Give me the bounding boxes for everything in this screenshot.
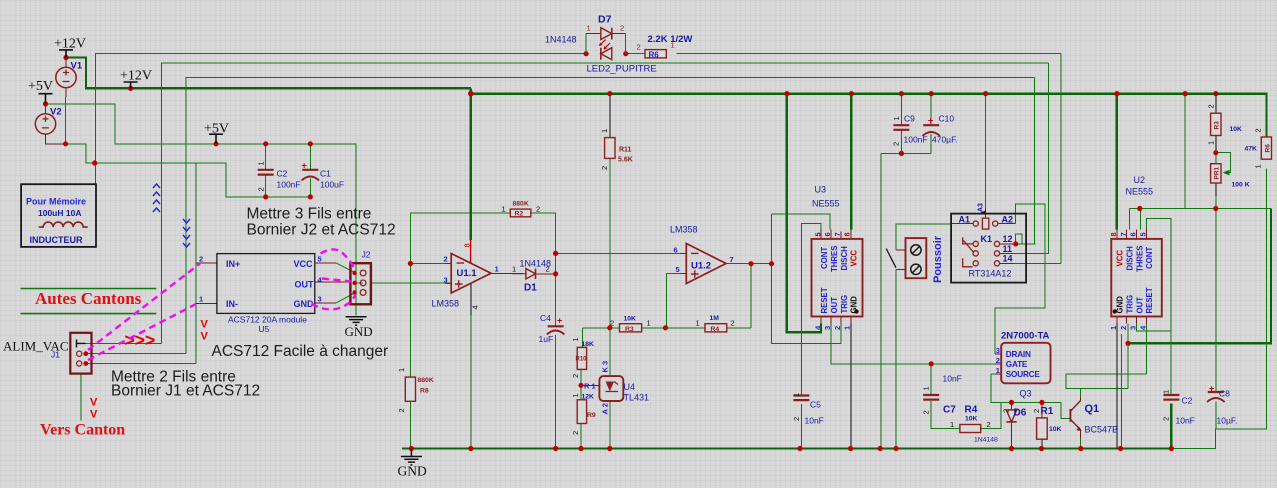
svg-text:2: 2: [1207, 104, 1216, 108]
svg-text:NE555: NE555: [1126, 187, 1154, 197]
K 3 / A 2 / R 1 TL431 rotated labels: [584, 361, 610, 415]
svg-text:OUT: OUT: [830, 297, 839, 314]
svg-text:+12V: +12V: [54, 37, 86, 52]
capacitor C9: [893, 125, 939, 130]
magenta dashed jumper J1 to IN-: [88, 304, 196, 360]
wire U3 OUT to MOSFET gate: [831, 324, 995, 364]
wire C2b feed: [1170, 331, 1172, 395]
svg-text:47K: 47K: [1245, 146, 1258, 153]
svg-text:+5V: +5V: [28, 79, 53, 94]
svg-text:5.6K: 5.6K: [618, 157, 633, 164]
svg-text:1: 1: [502, 205, 506, 214]
wire Q1 collector: [1080, 397, 1082, 400]
wire +5V net from V2 plus: [46, 104, 357, 263]
capacitor C2: [258, 170, 319, 175]
wire C2 pins: [265, 144, 267, 197]
wire U5 GND stub: [315, 302, 336, 304]
svg-text:U1.1: U1.1: [457, 268, 478, 279]
svg-text:U4: U4: [624, 382, 636, 392]
svg-text:A1: A1: [959, 215, 971, 225]
wire PR1 bottom to DISCH net: [1215, 183, 1217, 196]
wire relay A2 out: [998, 223, 1015, 225]
capacitor C2b: [1163, 395, 1179, 400]
svg-text:+: +: [302, 161, 307, 171]
svg-text:C8: C8: [1219, 389, 1230, 399]
U2 rotated pin names: [1126, 246, 1155, 314]
svg-text:+5V: +5V: [204, 122, 229, 137]
resistor R9: [577, 400, 586, 424]
svg-text:R3: R3: [625, 326, 634, 333]
svg-text:Q3: Q3: [1020, 389, 1032, 399]
diode D7: [586, 34, 626, 54]
svg-text:D7: D7: [598, 14, 612, 26]
svg-text:2: 2: [731, 318, 735, 327]
svg-text:2: 2: [1162, 417, 1171, 421]
svg-text:A 2: A 2: [601, 403, 610, 414]
wire rail drop x=1185: [1184, 94, 1186, 209]
svg-text:100nF: 100nF: [277, 180, 301, 190]
blue ic pin texts: [226, 259, 1040, 379]
V1 plus minus: [63, 70, 70, 82]
svg-text:R8: R8: [420, 388, 429, 395]
resistor R11: [605, 138, 615, 159]
svg-text:10µF.: 10µF.: [1217, 416, 1238, 426]
svg-text:18K: 18K: [582, 341, 595, 348]
U3 pin1 dot: [854, 309, 858, 313]
svg-text:2N7000-TA: 2N7000-TA: [1001, 331, 1050, 342]
gnd symbol J2: [346, 317, 367, 325]
svg-text:11: 11: [1003, 244, 1013, 254]
svg-text:SOURCE: SOURCE: [1006, 370, 1041, 379]
svg-text:V1: V1: [71, 61, 83, 72]
wire poussoir bottom to rail: [896, 268, 906, 270]
wire TL431 ref to node: [581, 384, 601, 386]
wire U1.1 pin4 down: [470, 284, 472, 316]
wire R1 pins: [1041, 402, 1043, 418]
wire relay coil feed from rail: [985, 94, 987, 208]
wire U2 TRIG riser: [1127, 324, 1129, 389]
svg-text:2: 2: [536, 205, 540, 214]
svg-text:2: 2: [996, 356, 1000, 365]
wire J1 stem down: [80, 374, 82, 421]
svg-text:R3: R3: [1214, 121, 1221, 130]
U3 rotated pin names: [820, 246, 1154, 314]
ic U2 box: [1111, 239, 1162, 317]
svg-text:14: 14: [1003, 254, 1013, 264]
resistor R10: [577, 347, 586, 369]
wire D6 R1 row: [991, 374, 1070, 419]
wire rail drop to U2 pin8: [1116, 94, 1118, 230]
svg-text:10K: 10K: [624, 316, 637, 323]
svg-text:OUT: OUT: [295, 280, 315, 290]
wire rail drop to U3 pin8: [850, 94, 852, 230]
svg-text:PR1: PR1: [1214, 166, 1221, 179]
small value labels: [418, 126, 1258, 433]
wire R4b to D6 node riser: [981, 402, 1002, 428]
svg-text:1: 1: [571, 337, 580, 341]
wire R9 bottom to rail: [580, 424, 582, 449]
svg-text:DRAIN: DRAIN: [1006, 350, 1031, 359]
U3 rotated pin numbers: [813, 232, 1147, 330]
svg-text:D6: D6: [1014, 408, 1027, 419]
svg-text:6: 6: [674, 246, 678, 255]
wire branch to Q1 collector net: [1066, 374, 1128, 398]
node dots on +12V rail: [63, 55, 68, 60]
node dots D7: [584, 51, 589, 56]
svg-text:2: 2: [620, 24, 624, 33]
led arrows: [599, 40, 610, 50]
connector J2: [350, 263, 371, 304]
svg-text:K1: K1: [981, 234, 993, 244]
svg-text:VCC: VCC: [294, 259, 314, 269]
svg-text:1: 1: [600, 129, 609, 133]
svg-text:U3: U3: [815, 185, 827, 195]
resistor R3 divider: [620, 324, 642, 332]
potentiometer PR1: [1211, 164, 1221, 183]
svg-text:OUT: OUT: [1135, 297, 1144, 314]
wire U1.1 output to D1: [491, 273, 523, 275]
svg-text:R1: R1: [1041, 406, 1054, 417]
wire U3 bottom stubs: [821, 317, 851, 324]
V2 plus minus: [42, 116, 49, 128]
svg-text:2: 2: [637, 43, 641, 52]
PR1 wiper arrow: [1223, 170, 1230, 176]
wire J1 pin3: [86, 363, 196, 365]
svg-text:U2: U2: [1134, 175, 1146, 185]
svg-text:BC547B: BC547B: [1085, 425, 1119, 435]
capacitor C1 arc: [302, 177, 320, 181]
rotated resistor names inside boxes: [1214, 121, 1272, 180]
svg-text:DISCH: DISCH: [1126, 246, 1135, 271]
wire U2 top stubs: [1127, 230, 1147, 239]
svg-text:1: 1: [512, 265, 516, 274]
poussoir screws: [886, 245, 921, 275]
svg-text:R11: R11: [619, 147, 632, 154]
svg-text:1: 1: [671, 41, 675, 50]
svg-text:5: 5: [318, 255, 322, 264]
wire R10 top drop: [581, 328, 583, 348]
svg-text:8: 8: [463, 243, 472, 247]
capacitor C4 top plate: [548, 325, 564, 327]
wire C5 bottom to rail: [800, 404, 802, 449]
resistor R4 10K: [960, 425, 981, 433]
wire rail drop to U3 pin4: [787, 94, 821, 333]
inductor coil symbol: [39, 222, 88, 227]
svg-text:1: 1: [922, 386, 931, 390]
svg-text:Poussoir: Poussoir: [932, 235, 944, 283]
wire rail thin extension to C8: [1171, 169, 1266, 449]
svg-text:1: 1: [1207, 141, 1216, 145]
wire C9 C10 bottoms: [901, 94, 931, 154]
svg-text:10K: 10K: [1049, 426, 1062, 433]
shunt U4 TL431: [599, 376, 623, 401]
resistor R8: [405, 377, 415, 401]
svg-text:12K: 12K: [582, 394, 595, 401]
wire inductor box drop: [95, 163, 97, 184]
svg-text:U1.2: U1.2: [691, 261, 711, 272]
svg-text:V2: V2: [50, 107, 62, 118]
svg-text:TRIG: TRIG: [1126, 295, 1135, 314]
svg-text:THRES: THRES: [1135, 246, 1144, 272]
wire J1 pin3 riser to IN rows: [195, 163, 197, 364]
svg-text:V: V: [201, 319, 209, 331]
svg-text:1: 1: [950, 420, 954, 429]
svg-text:6: 6: [1129, 232, 1138, 236]
wire poussoir top to relay A1: [896, 224, 951, 250]
svg-text:C10: C10: [939, 114, 955, 124]
svg-text:880K: 880K: [418, 377, 434, 384]
magenta dashed hook GND to J2: [312, 295, 356, 310]
wire U2 gnd pin down: [1116, 324, 1118, 449]
capacitor C7: [923, 395, 939, 400]
svg-text:2: 2: [922, 410, 931, 414]
svg-text:D1: D1: [524, 283, 537, 294]
wire thick net Q1/TRIG to right edge: [1128, 209, 1271, 344]
relay contacts circles: [973, 241, 978, 246]
wire C7 hang: [931, 364, 960, 429]
wire R4 1M loop: [750, 264, 752, 328]
svg-text:5: 5: [676, 265, 680, 274]
svg-text:2: 2: [987, 420, 991, 429]
svg-text:4: 4: [471, 305, 480, 309]
svg-text:U5: U5: [259, 324, 270, 334]
wire J2 gnd stem: [355, 263, 357, 315]
svg-text:LM358: LM358: [670, 225, 698, 235]
svg-text:V: V: [90, 397, 98, 409]
source V1: [56, 67, 76, 87]
capacitor C4 arc: [547, 331, 565, 335]
magenta dashed jumper J1 to IN+: [88, 249, 356, 360]
svg-text:7: 7: [833, 232, 842, 236]
svg-text:5: 5: [813, 232, 822, 236]
svg-text:2: 2: [892, 142, 901, 146]
svg-text:2: 2: [1002, 409, 1011, 413]
wire U2 pin8 stub: [1116, 230, 1118, 239]
svg-text:CONT: CONT: [820, 247, 829, 269]
gnd symbol main: [346, 317, 422, 465]
wire R2 pin2 to D1 node: [531, 213, 556, 448]
svg-text:1N4148: 1N4148: [545, 35, 577, 45]
wire PR1 wiper hook: [1216, 153, 1231, 173]
svg-text:2: 2: [792, 417, 801, 421]
wire CONT to C5 column: [801, 223, 821, 395]
wire J1 pin1: [85, 342, 162, 344]
svg-text:1: 1: [892, 116, 901, 120]
svg-text:C5: C5: [810, 400, 821, 410]
svg-text:DISCH: DISCH: [840, 246, 849, 271]
svg-text:1: 1: [1162, 390, 1171, 394]
svg-text:Bornier J2 et ACS712: Bornier J2 et ACS712: [247, 222, 396, 239]
svg-text:12: 12: [1003, 234, 1013, 244]
Q1 emitter arrow: [1076, 427, 1081, 431]
svg-text:470µF.: 470µF.: [932, 135, 958, 145]
svg-text:R6: R6: [649, 50, 660, 59]
relay pole hooks: [963, 237, 974, 251]
svg-text:TL431: TL431: [624, 393, 650, 403]
svg-text:V: V: [90, 409, 98, 421]
svg-text:R4: R4: [965, 405, 978, 416]
svg-text:+: +: [928, 116, 933, 126]
capacitor C8 top plate: [1208, 391, 1224, 393]
power symbol +5V V2: [39, 94, 53, 104]
wire R11 column: [609, 94, 611, 138]
svg-text:3: 3: [996, 346, 1000, 355]
wire D6 pins: [1011, 402, 1013, 448]
svg-text:Q1: Q1: [1085, 403, 1100, 415]
wire C1 pins: [309, 144, 311, 197]
ic U3 box: [812, 239, 863, 317]
wire U2 bottom stubs: [1117, 317, 1147, 324]
svg-text:RESET: RESET: [1145, 287, 1154, 313]
capacitor C10 arc: [922, 132, 940, 136]
svg-text:10nF: 10nF: [943, 374, 962, 384]
navy component labels: [50, 14, 1099, 419]
wire R8 column: [409, 264, 411, 449]
svg-text:100uF: 100uF: [320, 180, 344, 190]
op-amp U1.1 input signs: [455, 253, 699, 287]
svg-text:8: 8: [1109, 232, 1118, 236]
node dots left: [43, 101, 48, 106]
svg-text:10K: 10K: [1230, 126, 1243, 133]
svg-text:R4: R4: [711, 326, 720, 333]
svg-text:3: 3: [1129, 326, 1138, 330]
wire U3 top stubs: [821, 230, 851, 239]
svg-text:1: 1: [587, 24, 591, 33]
wire U5 VCC stub: [315, 262, 336, 264]
capacitor C5: [793, 392, 1223, 400]
wire R3c pins: [1215, 94, 1217, 153]
wire feedback node riser to R2 line: [410, 213, 510, 263]
svg-text:R10: R10: [576, 357, 588, 363]
wire U2 RESET down to SOURCE line: [1145, 324, 1147, 374]
U1.1 pin8 stub: [470, 240, 472, 264]
svg-text:+12V: +12V: [120, 69, 152, 84]
svg-text:1N4148: 1N4148: [974, 437, 998, 444]
wire top line1 y=53.7 from x=95.7: [96, 54, 586, 163]
svg-text:+: +: [1209, 384, 1214, 394]
svg-text:J1: J1: [51, 350, 60, 360]
svg-text:VCC: VCC: [1116, 250, 1125, 267]
svg-text:C7: C7: [943, 405, 956, 416]
blue chevrons up column: [153, 184, 190, 247]
svg-text:RT314A12: RT314A12: [969, 269, 1012, 279]
wire V2 minus to V1 minus junction: [46, 104, 66, 144]
led LED2: [601, 48, 612, 60]
svg-text:7: 7: [1119, 232, 1128, 236]
wire contact11 out: [1000, 252, 1013, 254]
connector J1: [70, 333, 91, 374]
capacitor C1 plates: [302, 169, 318, 171]
red V marks near IN-: [90, 319, 209, 421]
wire U5 OUT stub: [315, 281, 351, 283]
svg-text:10nF: 10nF: [1176, 416, 1195, 426]
svg-text:1: 1: [696, 318, 700, 327]
svg-text:7: 7: [730, 255, 734, 264]
wire SOURCE-RESET line: [1066, 373, 1146, 375]
svg-text:1: 1: [1109, 326, 1118, 330]
svg-text:GATE: GATE: [1006, 360, 1028, 369]
svg-text:C4: C4: [540, 313, 551, 323]
svg-text:ACS712 20A module: ACS712 20A module: [228, 315, 307, 325]
svg-text:2: 2: [199, 255, 203, 264]
svg-text:1: 1: [647, 318, 651, 327]
wire contact14 out: [1000, 262, 1013, 264]
diode D1: [526, 269, 536, 279]
svg-text:2: 2: [1119, 326, 1128, 330]
resistor R6 led: [645, 50, 666, 58]
svg-text:1: 1: [1254, 164, 1263, 168]
svg-text:1: 1: [843, 326, 852, 330]
wire TL431 cathode/anode column: [609, 328, 611, 449]
svg-text:10nF: 10nF: [805, 416, 824, 426]
pin numbers: [199, 246, 1000, 376]
svg-text:2: 2: [1032, 409, 1041, 413]
wire U1.2 output: [726, 263, 772, 265]
inductor info box: [21, 184, 96, 247]
wire U1.2 pin5 riser: [666, 273, 686, 327]
wire U2 CONT loop: [1137, 218, 1171, 330]
svg-text:INDUCTEUR: INDUCTEUR: [30, 235, 83, 245]
autes cantons underline overline: [21, 289, 157, 314]
wire R3-PR1 link: [1215, 153, 1217, 164]
svg-text:1M: 1M: [710, 315, 720, 322]
node dots mid: [408, 261, 413, 266]
svg-text:3: 3: [823, 326, 832, 330]
mosfet Q3 box: [1001, 343, 1050, 384]
svg-text:R2: R2: [515, 211, 524, 218]
wire DISCH net y=208.5: [1130, 208, 1271, 210]
svg-text:C2: C2: [277, 169, 288, 179]
wire node to U1.1 pin2: [410, 263, 451, 265]
svg-text:K 3: K 3: [601, 361, 610, 373]
svg-text:Bornier J1 et ACS712: Bornier J1 et ACS712: [111, 383, 260, 400]
svg-text:GND: GND: [1116, 296, 1125, 314]
resistor R4 1M: [705, 324, 727, 332]
svg-text:1uF: 1uF: [539, 334, 554, 344]
U2 pin1 dot: [1113, 309, 1117, 313]
op-amp input stubs: [446, 253, 687, 283]
resistor R2: [510, 209, 531, 217]
wire out node riser up to THRES line: [772, 214, 830, 264]
svg-text:Pour Mémoire: Pour Mémoire: [26, 197, 86, 207]
wire Q1 emitter down: [1080, 430, 1082, 439]
wire U5 IN+ stub: [196, 262, 217, 264]
svg-text:100 K: 100 K: [1232, 182, 1250, 189]
svg-text:880K: 880K: [513, 201, 529, 208]
relay coil: [963, 218, 1000, 267]
svg-text:Vers Canton: Vers Canton: [40, 422, 125, 439]
svg-text:TRIG: TRIG: [840, 295, 849, 314]
svg-text:2: 2: [571, 374, 580, 378]
power symbol +12V V1: [39, 50, 224, 144]
svg-text:GND: GND: [294, 299, 315, 309]
svg-text:R 1: R 1: [584, 382, 596, 391]
node dots bottom rail: [409, 446, 414, 451]
wire V1 to rail: [66, 58, 471, 89]
wire C2 bottom riser: [1170, 404, 1172, 449]
svg-text:Mettre 3 Fils entre: Mettre 3 Fils entre: [247, 206, 372, 223]
ic U5 box: [217, 254, 315, 314]
wire R divider row y=327.8: [582, 327, 751, 329]
svg-text:1: 1: [996, 366, 1000, 375]
svg-text:C1: C1: [320, 169, 331, 179]
svg-text:6: 6: [823, 232, 832, 236]
svg-text:GND: GND: [345, 324, 373, 339]
capacitor C8 arc: [1207, 398, 1225, 402]
svg-text:10K: 10K: [965, 416, 978, 423]
svg-text:THRES: THRES: [830, 246, 839, 272]
resistor R1: [1037, 418, 1048, 439]
